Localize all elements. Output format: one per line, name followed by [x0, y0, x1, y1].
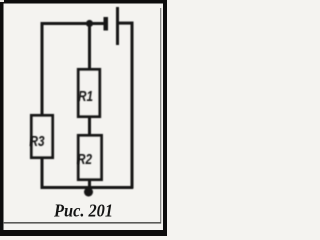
wire left vertical: [41, 22, 44, 115]
wire top right segment: [118, 22, 134, 25]
svg-text:R3: R3: [30, 133, 46, 150]
scan border bottom: [0, 230, 167, 236]
scan border top: [0, 0, 167, 4]
wire top left segment: [41, 22, 105, 25]
wire between R1 and R2: [88, 117, 91, 135]
scan border right: [163, 0, 167, 236]
node B bottom junction dot: [84, 188, 93, 197]
scan border left: [0, 0, 4, 236]
wire stub below R2: [88, 180, 91, 188]
svg-text:R1: R1: [78, 88, 93, 105]
wire right vertical: [131, 22, 134, 189]
page background: [0, 0, 167, 236]
wire left lower vertical: [41, 157, 44, 188]
resistor R2: [78, 135, 101, 179]
svg-text:Рис. 201: Рис. 201: [53, 201, 113, 221]
battery GB long plate: [116, 7, 119, 45]
battery GB short plate: [104, 17, 109, 31]
frame line right: [160, 8, 161, 224]
frame line bottom: [3, 222, 161, 224]
wire middle branch upper: [88, 23, 91, 69]
wire bottom horizontal: [41, 186, 134, 189]
node A top junction dot: [86, 20, 93, 27]
svg-text:R2: R2: [77, 151, 93, 168]
corner notch top-left: [0, 0, 4, 2]
resistor R3: [31, 115, 52, 157]
resistor R1: [78, 69, 100, 116]
